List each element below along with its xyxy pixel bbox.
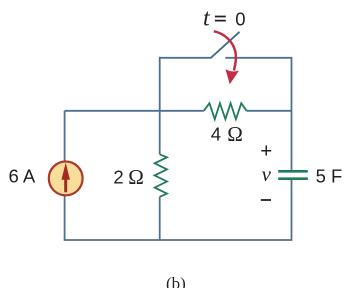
svg-text:4: 4: [211, 124, 221, 145]
current source arrowhead: [61, 163, 70, 180]
resistor R 4-ohm zigzag: [204, 103, 247, 119]
wire: 4-ohm branch right lead: [247, 110, 292, 112]
svg-text:2: 2: [113, 167, 123, 188]
svg-text:v: v: [262, 162, 272, 186]
wire: left vertical branch: [64, 111, 66, 240]
wire: inner top right segment from switch to right branch: [225, 57, 292, 59]
resistor R 2-ohm zigzag: [155, 154, 167, 197]
svg-text:(b): (b): [166, 274, 186, 288]
svg-text:5 F: 5 F: [316, 166, 343, 187]
svg-text:+: +: [260, 139, 272, 162]
wire: inner top left segment to switch pivot: [160, 57, 212, 59]
switch closing arrow (red arc): [214, 31, 236, 70]
switch blade (open, t=0): [211, 32, 240, 58]
wire: bottom horizontal: [64, 239, 293, 241]
svg-text:0: 0: [235, 9, 245, 30]
capacitor C 5F top plate: [278, 170, 308, 173]
wire: 4-ohm branch left lead: [160, 110, 204, 112]
wire: middle vertical upper (top box left side down to 2-ohm): [159, 57, 161, 154]
wire: right vertical lower (capacitor bottom plate to bottom corner): [291, 179, 293, 240]
wire: right vertical upper (top corner to capacitor top plate): [291, 58, 293, 172]
current source arrow shaft: [64, 179, 67, 192]
current source I1 circle: [49, 162, 83, 196]
label - polarity: [261, 199, 271, 201]
wire: middle vertical lower (2-ohm to bottom): [159, 197, 161, 240]
svg-text:Ω: Ω: [227, 122, 243, 146]
capacitor C 5F bottom plate: [278, 177, 308, 180]
switch arrowhead: [225, 69, 239, 84]
svg-text:6 A: 6 A: [9, 166, 36, 187]
wire: top-left horizontal from left branch to middle node: [65, 110, 160, 112]
svg-text:Ω: Ω: [128, 165, 144, 189]
svg-text:t: t: [203, 6, 211, 32]
